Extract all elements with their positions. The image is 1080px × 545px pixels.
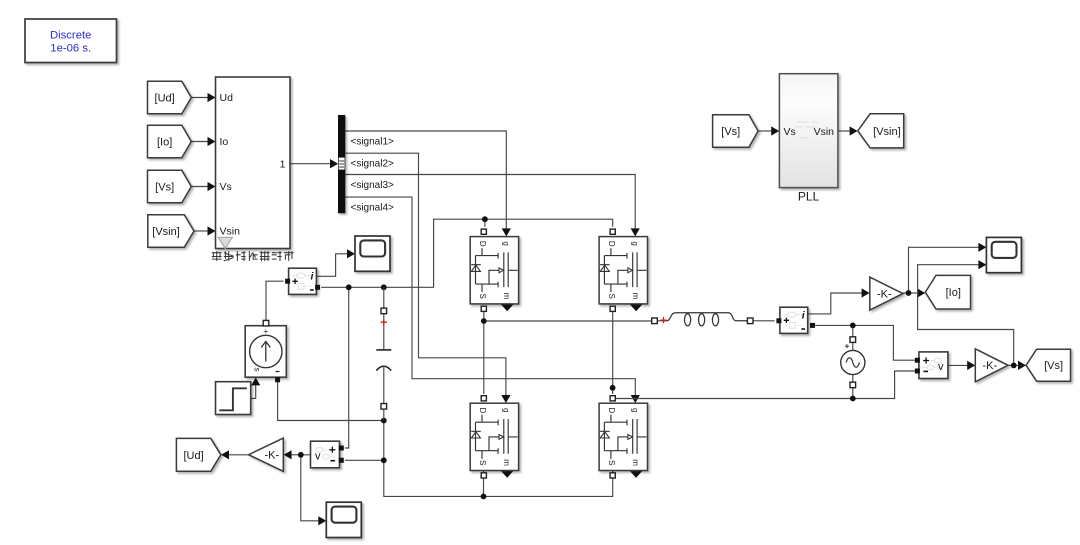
wire branch from K2 output to Scope2 input 2 [918,260,1014,365]
wire node A rail to inductor [484,320,652,322]
wire from K2 output to [Vs] goto tag [1008,361,1026,370]
svg-text:1: 1 [280,158,286,170]
node: negative rail to capacitor junction [381,418,387,424]
svg-text:-K-: -K- [877,288,892,300]
node: K1 output branch junction [906,290,912,296]
wire AC source - down to node B rail [852,388,854,399]
from tag [Vs] [148,170,192,202]
wire branch from K1 output to Scope2 input 1 [909,243,987,293]
node: negative rail to VM2- junction [381,457,387,463]
PLL subsystem block [779,74,838,188]
MOSFET Q2 (upper right) [599,229,647,311]
wire Q4 source stub [612,471,614,473]
MOSFET Q1 (upper left) [470,229,518,311]
svg-text:<signal2>: <signal2> [351,159,395,170]
wire from PLL output to [Vsin] goto tag [838,126,858,135]
svg-text:PLL: PLL [798,190,820,204]
controlled DC voltage source [245,320,286,382]
svg-text:v: v [315,451,321,463]
scope Scope2 (output, 2 inputs) [986,237,1021,272]
wire from K3 output to [Ud] goto tag [221,450,249,459]
goto tag [Io] [925,275,970,309]
wire from [Vsin] tag to subsystem Vsin input [194,226,216,235]
svg-text:1e-06 s.: 1e-06 s. [50,43,91,55]
svg-text:-K-: -K- [982,360,997,372]
wire Q2 source to node B and Q4 drain [612,306,614,394]
svg-text:Io: Io [220,136,229,148]
node: K2 output branch junction [1011,363,1017,369]
svg-text:[Vs]: [Vs] [1044,360,1063,372]
node: DC+ rail to VM2+ junction [346,284,352,290]
wire from VM1 output to gain K2 [948,361,975,370]
svg-text:v: v [938,361,944,373]
inductor L1 branch (series RLC) [652,313,753,326]
wire from VM2 - to negative rail [345,459,384,461]
scope Scope3 (DC voltage) [326,502,361,537]
signal label &lt;signal2&gt; [351,159,395,170]
wire from [Vs] tag to subsystem Vs input [191,182,215,191]
capacitor C1 branch (DC link) [376,287,391,420]
wire node A down to Q3 drain [483,321,485,394]
svg-text:[Vsin]: [Vsin] [873,126,901,138]
svg-text:Discrete: Discrete [50,30,91,42]
wire AC source + up to load rail [852,325,854,337]
wire from DC source - to negative rail [278,382,384,420]
wire from i1 measurement output to Scope1 [316,249,355,276]
wire from [Io] tag to subsystem Io input [191,137,215,146]
svg-text:Vs: Vs [220,181,232,193]
svg-text:[Vs]: [Vs] [721,126,740,138]
voltage measurement VM2 (DC voltage, mirrored) [311,441,344,468]
subsystem block 单极性倍频调制 (modulator) [216,77,291,249]
goto tag [Vsin] [858,114,904,148]
gain K2 (voltage scaling) [975,349,1008,382]
powergui block Discrete 1e-06 s [25,19,117,63]
wire signal4 from bus selector to Q4 gate [345,197,640,403]
gain K1 (current scaling) [870,277,903,310]
node: DC+ rail to capacitor junction [381,284,387,290]
wire from subsystem output 1 to bus selector [290,159,338,168]
wire Q3 source stub [483,471,485,473]
wire from [Ud] tag to subsystem Ud input [191,93,215,102]
current measurement i1 (DC side) [285,268,320,294]
from tag [Ud] [148,81,192,113]
svg-text:Ud: Ud [220,92,234,104]
svg-text:Vsin: Vsin [814,126,835,138]
wire from VM2 + up to DC positive rail [345,287,349,448]
MOSFET Q3 (lower left) [470,396,518,478]
svg-text:[Io]: [Io] [157,137,172,149]
signal label &lt;signal1&gt; [351,136,395,147]
scope Scope1 (DC current) [355,236,390,271]
label PLL [798,190,820,204]
wire signal2 from bus selector to Q3 gate [345,153,510,403]
svg-text:-K-: -K- [264,450,279,462]
AC voltage source [841,337,865,388]
svg-text:[Io]: [Io] [946,287,961,299]
wire from i2 measurement output to gain K1 [808,288,870,314]
svg-text:<signal3>: <signal3> [351,180,395,191]
wire node B rail to AC source and VM1 - [613,371,916,399]
from tag [Vs] feeding PLL [713,115,759,148]
svg-text:Vsin: Vsin [220,226,241,238]
node: node B rail to AC- junction [850,396,856,402]
wire signal3 from bus selector to Q2 gate [345,175,640,237]
wire from DC source + to i1 + [266,281,284,321]
node: D rail to Q1 drain junction [482,216,488,222]
step source block [216,382,251,415]
MOSFET Q4 (lower right) [599,396,647,478]
wire from [Vs] tag to PLL input [758,126,779,135]
svg-text:Vs: Vs [784,126,796,138]
svg-text:[Ud]: [Ud] [184,450,204,462]
svg-text:s: s [253,368,262,372]
goto tag [Ud] (mirrored) [176,438,220,471]
svg-text:<signal4>: <signal4> [351,202,395,213]
current measurement i2 (load side) [776,307,815,333]
svg-text:[Vs]: [Vs] [155,182,174,194]
goto tag [Vs] [1026,349,1070,381]
wire negative rail down to bottom rail of Q3 Q4 sources [384,421,613,497]
node: load rail to AC+ junction [850,323,856,329]
svg-text:<signal1>: <signal1> [351,136,395,147]
wire signal1 from bus selector to Q1 gate [345,131,511,236]
wire from Step to controlled source s input [251,377,261,398]
wire from VM2 output to gain K3 [284,450,311,459]
wire from K1 output to [Io] goto tag [903,288,925,297]
svg-text:[Vsin]: [Vsin] [152,226,180,238]
bus selector [330,115,345,213]
voltage measurement VM1 (output voltage) [915,352,948,379]
wire DC positive rail from i1 - to Q1 and Q2 drains [321,219,613,287]
signal label &lt;signal3&gt; [351,180,395,191]
node: bottom rail to Q3 source junction [481,494,487,500]
wire from i2 - to AC source + and VM1 + [814,325,916,360]
node: VM2 output branch junction [298,452,304,458]
signal label &lt;signal4&gt; [351,202,395,213]
node B junction [610,385,616,391]
node A junction [481,318,487,324]
svg-text:+: + [263,326,268,336]
svg-text:[Ud]: [Ud] [155,93,175,105]
label 单极性倍频调制 under subsystem [212,251,294,261]
from tag [Io] [148,125,192,157]
wire from inductor to i2 + [753,320,775,322]
gain K3 (DC voltage scaling, mirrored) [249,438,284,471]
from tag [Vsin] [148,215,194,247]
wire branch from VM2 output to Scope3 [301,455,327,526]
wire Q1 source to node A [483,306,485,321]
